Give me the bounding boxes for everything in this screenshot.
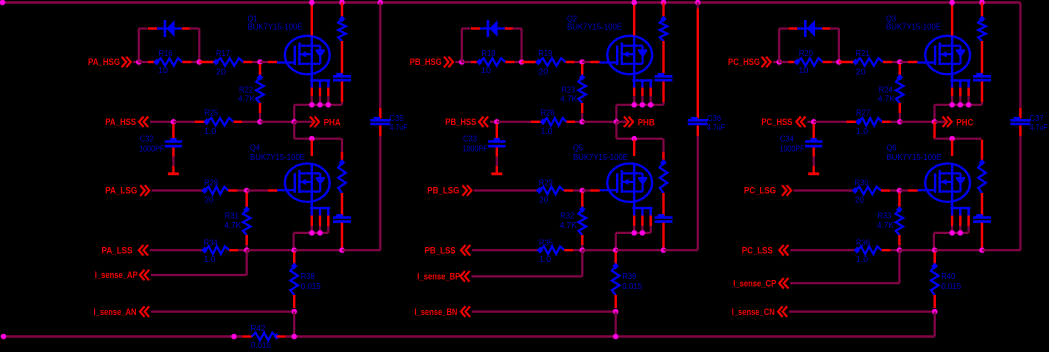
net label PB_LSG (427, 185, 471, 196)
resistor R16 (139, 48, 200, 75)
resistor R23 (560, 64, 586, 122)
wire shunt to ground rail (615, 312, 617, 337)
net label PC_LSS (742, 245, 789, 256)
wire lss row to bulk rail (664, 249, 698, 251)
capacitor snubber high-side C (973, 73, 991, 105)
svg-text:R40: R40 (941, 271, 955, 281)
transistor Q4 (277, 163, 330, 208)
junction diode/R node (519, 59, 525, 65)
resistor R24 (878, 64, 904, 122)
capacitor C32 (139, 124, 182, 154)
junction ls source pin 2 (317, 230, 323, 236)
junction gate node (257, 59, 263, 65)
net label I_sense_BP (417, 271, 469, 282)
wire PB_LSG row (474, 189, 538, 191)
net label PA_LSG (105, 185, 149, 196)
junction shunt on ground rail (291, 334, 297, 340)
junction pulldown bottom (579, 119, 585, 125)
resistor R25 (195, 108, 242, 137)
svg-text:1.0: 1.0 (204, 254, 216, 264)
svg-text:PA_LSS: PA_LSS (102, 246, 133, 256)
junction shunt bottom (932, 309, 938, 315)
svg-text:R42: R42 (250, 323, 265, 333)
svg-text:4.7uF: 4.7uF (390, 122, 408, 132)
svg-text:I_sense_BN: I_sense_BN (414, 307, 457, 317)
svg-text:1000PF: 1000PF (139, 144, 164, 154)
net label I_sense_AP (95, 270, 149, 281)
svg-text:PA_HSS: PA_HSS (105, 117, 136, 127)
svg-text:4.7K: 4.7K (877, 220, 894, 230)
resistor snubber low-side A (338, 139, 346, 216)
resistor snubber high-side C (978, 3, 986, 74)
wire gate node to Q2 (582, 61, 600, 63)
svg-text:BUK7Y15-100E: BUK7Y15-100E (886, 22, 941, 32)
resistor snubber low-side C (978, 140, 986, 216)
svg-text:BUK7Y15-100E: BUK7Y15-100E (573, 152, 628, 162)
wire PC_LSG row (794, 189, 855, 191)
svg-text:PB_HSS: PB_HSS (445, 117, 476, 127)
svg-text:I_sense_AN: I_sense_AN (94, 307, 137, 317)
wire lss row to shunt (899, 249, 934, 251)
capacitor snubber low-side A (333, 214, 351, 250)
svg-text:R18: R18 (482, 48, 496, 58)
capacitor C35 (370, 113, 407, 132)
junction low-side drain (309, 136, 315, 142)
junction source pin 3 (326, 102, 332, 108)
svg-text:R21: R21 (856, 48, 870, 58)
net label PHA (310, 117, 341, 128)
wire Q3 drain pin (951, 3, 953, 36)
junction bulk rail top (378, 0, 384, 5)
junction ls gate node (580, 188, 586, 194)
resistor snubber high-side A (338, 3, 346, 74)
svg-text:4.7K: 4.7K (560, 94, 577, 104)
svg-text:BUK7Y15-100E: BUK7Y15-100E (567, 22, 622, 32)
wire lss row to snubber (294, 249, 342, 251)
svg-text:20: 20 (539, 195, 548, 205)
transistor Q6 label (887, 143, 942, 163)
svg-text:R30: R30 (855, 177, 869, 187)
wire PA_HSG to RA (133, 61, 139, 63)
wire source pins row (294, 105, 342, 122)
svg-text:PC_LSG: PC_LSG (744, 186, 776, 196)
svg-text:PHC: PHC (956, 117, 973, 127)
svg-text:4.7K: 4.7K (560, 220, 577, 230)
junction bottom rail left end (1, 334, 7, 340)
net label PC_HSS (761, 117, 805, 128)
node PHB junction (614, 119, 620, 125)
net label PA_HSS (105, 117, 148, 128)
svg-text:C34: C34 (780, 134, 794, 144)
wire PC_HSG to RC (773, 61, 779, 63)
junction pulldown bottom (257, 119, 263, 125)
junction source pin 2 (317, 102, 323, 108)
wire gate diode branch (462, 29, 522, 63)
junction lss node (244, 247, 250, 253)
svg-text:R26: R26 (541, 108, 555, 118)
svg-text:1.0: 1.0 (539, 254, 551, 264)
junction drain on top rail (631, 0, 637, 5)
wire RS to pulldown node (891, 121, 900, 123)
wire ls gate node to Q4 (247, 189, 278, 191)
wire PB_HSG to RB (455, 61, 461, 63)
resistor R32 (560, 193, 586, 251)
wire Q5 source pins (634, 208, 651, 233)
resistor R26 (531, 108, 575, 137)
resistor R17 (199, 48, 260, 76)
svg-text:20: 20 (216, 67, 226, 77)
junction source pin 2 (958, 102, 964, 108)
junction source pin 1 (631, 102, 637, 108)
junction bottom rail mid (231, 334, 237, 340)
ground (491, 148, 502, 174)
svg-text:1.0: 1.0 (541, 126, 553, 136)
wire lss row to shunt (582, 249, 615, 251)
svg-text:C32: C32 (140, 134, 154, 144)
svg-text:10: 10 (481, 65, 491, 75)
resistor R38 (290, 252, 321, 308)
svg-text:BUK7Y15-100E: BUK7Y15-100E (248, 22, 303, 32)
svg-text:Q5: Q5 (573, 143, 583, 153)
junction shunt on ground rail (613, 334, 619, 340)
wire low-side source row (294, 233, 329, 250)
wire tap to R25 (173, 121, 194, 123)
resistor R29 (536, 177, 582, 204)
wire PA_HSS row (150, 121, 173, 123)
svg-text:Q6: Q6 (887, 143, 897, 153)
wire shunt to ground rail (293, 312, 295, 337)
junction ls source pin 2 (640, 230, 646, 236)
junction ls gate node (897, 188, 903, 194)
junction low-side drain (949, 136, 955, 142)
transistor Q5 label (573, 143, 628, 163)
wire I_sense_BP row (471, 250, 582, 276)
svg-text:20: 20 (856, 67, 866, 77)
capacitor C34 (780, 124, 823, 154)
wire PA_LSG row (152, 189, 204, 191)
svg-text:PB_HSG: PB_HSG (410, 57, 442, 67)
net label I_sense_AN (94, 306, 150, 317)
svg-text:R16: R16 (159, 48, 173, 58)
resistor R40 (931, 252, 962, 308)
wire Q1 source pins (312, 80, 329, 104)
ground (808, 148, 819, 174)
svg-text:R25: R25 (204, 108, 218, 118)
junction source pin 3 (648, 102, 654, 108)
wire gate node to Q1 (260, 61, 277, 63)
wire lss row to bulk rail (982, 249, 1020, 251)
junction filter cap tap (171, 119, 177, 125)
transistor Q3 label (886, 14, 941, 32)
resistor R31 (224, 193, 250, 251)
svg-text:20: 20 (205, 195, 214, 205)
wire Q2 source pins (634, 80, 651, 104)
junction shunt top (613, 247, 619, 253)
svg-text:R38: R38 (301, 271, 315, 281)
svg-text:BUK7Y15-100E: BUK7Y15-100E (250, 152, 305, 162)
svg-text:0.015: 0.015 (251, 340, 271, 350)
junction snubber bottom (339, 247, 345, 253)
wire phase node to low-side drain (616, 122, 663, 139)
svg-text:PA_HSG: PA_HSG (88, 57, 120, 67)
junction source pin 1 (949, 102, 955, 108)
net label PB_HSG (410, 57, 453, 68)
capacitor snubber high-side B (655, 73, 673, 105)
wire lss row to bulk rail (342, 249, 380, 251)
junction ls source pin 2 (958, 230, 964, 236)
ground (168, 148, 179, 174)
wire lss row to shunt (247, 249, 295, 251)
net label PHC (943, 117, 974, 128)
wire bulk rail C (1019, 3, 1021, 251)
svg-text:20: 20 (538, 67, 548, 77)
wire phase node to low-side drain (294, 122, 341, 139)
svg-text:1000PF: 1000PF (463, 144, 488, 154)
junction pulldown bottom (897, 119, 903, 125)
svg-text:R27: R27 (856, 108, 870, 118)
net label I_sense_BN (414, 306, 470, 317)
wire I_sense_AP row (151, 250, 247, 275)
resistor snubber high-side B (660, 3, 668, 74)
resistor R36 (854, 238, 900, 265)
junction drain on top rail (949, 0, 955, 5)
svg-text:4.7K: 4.7K (878, 94, 895, 104)
diode DA (gate turn-off) (148, 20, 190, 37)
junction gate node (897, 59, 903, 65)
capacitor C36 (688, 113, 725, 132)
wire Q1 drain pin (311, 3, 313, 36)
wire low-side source row (934, 233, 969, 250)
capacitor C37 (1010, 113, 1047, 132)
wire I_sense_AN row (151, 311, 294, 313)
junction PB_HSG node (459, 59, 465, 65)
svg-text:R29: R29 (539, 177, 553, 187)
svg-text:PHB: PHB (638, 117, 655, 127)
svg-text:4.7K: 4.7K (238, 94, 255, 104)
capacitor snubber high-side A (333, 73, 351, 105)
net label PA_LSS (102, 245, 149, 256)
resistor R34 (201, 238, 246, 265)
net label I_sense_CN (732, 306, 788, 317)
resistor R19 (522, 48, 583, 76)
wire bulk rail A (379, 3, 381, 251)
svg-text:4.7uF: 4.7uF (707, 122, 725, 132)
svg-text:R17: R17 (216, 48, 230, 58)
resistor R42 (242, 323, 286, 350)
junction drain on top rail (309, 0, 315, 5)
wire Q5 drain pin (633, 140, 635, 156)
wire ls gate node to Q6 (899, 189, 917, 191)
transistor Q2 (599, 36, 652, 81)
svg-text:R35: R35 (539, 238, 553, 248)
junction low-side drain (631, 136, 637, 142)
transistor Q3 (917, 36, 970, 81)
svg-text:BUK7Y15-100E: BUK7Y15-100E (887, 152, 942, 162)
svg-text:I_sense_CN: I_sense_CN (732, 307, 775, 317)
wire Q6 source pins (952, 208, 969, 233)
svg-text:I_sense_AP: I_sense_AP (95, 270, 138, 280)
wire gate diode branch (139, 29, 200, 63)
wire gate node to Q3 (900, 61, 918, 63)
junction ls source pin 1 (631, 230, 637, 236)
resistor R35 (537, 238, 583, 265)
wire low-side source row (616, 233, 651, 250)
svg-text:10: 10 (798, 65, 808, 75)
junction snubber on top rail (979, 0, 985, 5)
transistor Q1 (277, 36, 330, 81)
svg-text:1.0: 1.0 (856, 254, 868, 264)
wire PB_LSS row (472, 249, 539, 251)
wire bulk rail B (697, 3, 699, 251)
wire tap to R27 (814, 121, 847, 123)
junction filter cap tap (494, 119, 500, 125)
svg-text:R39: R39 (622, 271, 636, 281)
transistor Q1 label (248, 14, 303, 32)
resistor R33 (877, 193, 903, 251)
resistor snubber low-side B (660, 139, 668, 216)
svg-text:I_sense_BP: I_sense_BP (417, 272, 460, 282)
wire phase node stub (935, 121, 946, 123)
capacitor snubber low-side C (973, 214, 991, 250)
wire pulldown node to phase node (582, 121, 616, 123)
resistor R18 (462, 48, 522, 75)
svg-text:PA_LSG: PA_LSG (105, 186, 137, 196)
resistor R27 (847, 108, 891, 137)
junction gate node (579, 59, 585, 65)
svg-text:R19: R19 (538, 48, 552, 58)
wire PA_LSS row (150, 249, 204, 251)
node PHC junction (932, 119, 938, 125)
resistor R22 (238, 64, 264, 122)
wire tap to R26 (497, 121, 531, 123)
capacitor snubber low-side B (655, 214, 673, 250)
transistor Q4 label (250, 143, 305, 163)
svg-text:1000PF: 1000PF (780, 144, 805, 154)
wire pulldown node to phase node (900, 121, 935, 123)
junction lss node (580, 247, 586, 253)
transistor Q5 (599, 163, 652, 208)
junction shunt top (291, 247, 297, 253)
capacitor C33 (463, 124, 506, 154)
wire source pins row (935, 105, 983, 122)
junction ls source pin 1 (309, 230, 315, 236)
wire PC_LSS row (790, 249, 856, 251)
junction snubber on top rail (661, 0, 667, 5)
junction top rail left end (0, 0, 5, 5)
wire Q4 drain pin (311, 140, 313, 156)
svg-text:R34: R34 (204, 238, 218, 248)
resistor R30 (852, 177, 900, 204)
wire phase node to low-side drain (935, 122, 982, 139)
wire Q2 drain pin (633, 3, 635, 36)
wire lss row to snubber (616, 249, 664, 251)
svg-text:1.0: 1.0 (204, 126, 216, 136)
junction ls source pin 1 (949, 230, 955, 236)
diode DB (gate turn-off) (471, 20, 513, 37)
wire shunt to ground rail (934, 312, 936, 337)
svg-text:PC_LSS: PC_LSS (742, 246, 773, 256)
wire Q4 source pins (312, 208, 329, 233)
wire PB_HSS row (490, 121, 497, 123)
junction source pin 2 (640, 102, 646, 108)
svg-text:R36: R36 (856, 238, 870, 248)
junction source pin 3 (966, 102, 972, 108)
transistor Q2 label (567, 14, 622, 32)
wire source pins row (616, 105, 663, 122)
svg-text:R28: R28 (204, 177, 218, 187)
net label I_sense_CP (733, 278, 788, 289)
junction shunt top (932, 247, 938, 253)
wire ls gate node to Q5 (582, 189, 599, 191)
junction diode/R node (836, 59, 842, 65)
transistor Q6 (917, 163, 970, 208)
svg-text:0.015: 0.015 (301, 281, 321, 291)
junction snubber on top rail (339, 0, 345, 5)
wire lss row to snubber (935, 249, 982, 251)
resistor R28 (201, 177, 246, 204)
junction snubber bottom (979, 247, 985, 253)
wire PC_HSS row (807, 121, 813, 123)
svg-text:4.7uF: 4.7uF (1030, 122, 1048, 132)
wire pulldown node to phase node (260, 121, 294, 123)
net label PA_HSG (88, 57, 131, 68)
svg-text:10: 10 (158, 65, 168, 75)
junction shunt bottom (613, 309, 619, 315)
svg-text:0.015: 0.015 (941, 281, 961, 291)
svg-text:I_sense_CP: I_sense_CP (733, 278, 776, 288)
junction lss node (897, 247, 903, 253)
wire I_sense_BN row (472, 311, 616, 313)
junction bulk rail top (695, 0, 701, 5)
wire Q6 drain pin (951, 140, 953, 156)
net label PC_LSG (744, 185, 791, 196)
resistor R21 (839, 48, 900, 76)
diode DC (gate turn-off) (788, 20, 830, 37)
wire RS to pulldown node (242, 121, 260, 123)
junction PC_HSG node (776, 59, 782, 65)
svg-text:1.0: 1.0 (856, 126, 868, 136)
net label PHB (624, 117, 655, 128)
net label PB_HSS (445, 117, 488, 128)
svg-text:C33: C33 (463, 134, 477, 144)
svg-text:PC_HSG: PC_HSG (728, 57, 760, 67)
wire top power rail (3, 1, 1021, 3)
svg-text:PB_LSG: PB_LSG (427, 186, 459, 196)
junction source pin 1 (309, 102, 315, 108)
net label PC_HSG (728, 57, 771, 68)
svg-text:4.7K: 4.7K (224, 220, 241, 230)
wire I_sense_CP row (790, 250, 899, 283)
net label PB_LSS (425, 245, 471, 256)
wire bottom ground rail (4, 335, 935, 337)
svg-text:0.015: 0.015 (622, 281, 642, 291)
wire I_sense_CN row (789, 311, 935, 313)
junction filter cap tap (811, 119, 817, 125)
junction ls gate node (244, 188, 250, 194)
junction snubber bottom (661, 247, 667, 253)
svg-text:PHA: PHA (324, 117, 341, 127)
wire Q3 source pins (952, 80, 969, 104)
wire phase node stub (294, 121, 312, 123)
svg-text:R20: R20 (799, 48, 813, 58)
junction diode/R node (197, 59, 203, 65)
svg-text:PB_LSS: PB_LSS (425, 246, 456, 256)
wire RS to pulldown node (575, 121, 582, 123)
wire phase node stub (616, 121, 626, 123)
junction shunt bottom (291, 309, 297, 315)
wire gate diode branch (779, 29, 839, 63)
resistor R20 (779, 48, 839, 75)
